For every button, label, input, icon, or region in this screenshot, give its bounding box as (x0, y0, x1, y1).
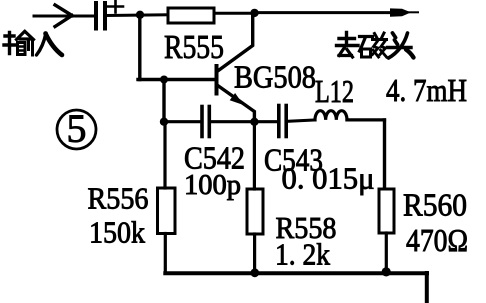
wire node E to C543 (254, 120, 278, 123)
figure number circle 5 (57, 110, 96, 149)
capacitor C542 left plate (200, 107, 204, 137)
resistor R555 (168, 8, 214, 23)
svg-text:1. 2k: 1. 2k (275, 237, 330, 272)
wire node E to R558 (253, 122, 256, 189)
wire R558 to bottom rail (253, 234, 256, 272)
svg-text:L12: L12 (315, 73, 354, 109)
svg-text:R556: R556 (88, 181, 149, 216)
label input (Chinese shu) (4, 32, 34, 56)
capacitor input coupling left plate (94, 3, 98, 29)
wire output arrow tip (405, 11, 418, 13)
arrow output (390, 8, 411, 16)
wire node D to R556 (163, 122, 166, 188)
svg-text:5: 5 (67, 106, 87, 151)
wire bottom right down (425, 273, 429, 303)
svg-text:4. 7mH: 4. 7mH (386, 72, 467, 108)
wire R556 to bottom rail (164, 234, 167, 273)
label to-head (Chinese ci) (360, 33, 387, 57)
wire R560 to bottom rail (385, 233, 388, 272)
label to-head (Chinese qu) (337, 33, 359, 58)
node B junction (250, 9, 258, 17)
wire corner down to R560 (383, 120, 386, 190)
node E junction (250, 118, 258, 126)
wire node B to output arrow (255, 11, 393, 14)
wire node D to C542 (164, 120, 201, 123)
svg-text:R555: R555 (164, 29, 224, 66)
wire node A down (138, 15, 141, 80)
wire inductor to corner (347, 118, 385, 121)
wire input left segment (34, 15, 94, 18)
transistor Q1 base bar (215, 66, 219, 94)
capacitor C543 right plate (284, 106, 288, 137)
resistor R558 (247, 189, 263, 234)
node A junction (136, 11, 144, 19)
inductor L12 (315, 111, 347, 120)
capacitor C543 left plate (277, 106, 281, 137)
node D junction (160, 118, 168, 126)
resistor R560 (379, 189, 394, 233)
wire capacitor to node A (107, 13, 168, 17)
svg-text:0. 015μ: 0. 015μ (282, 161, 375, 196)
resistor R556 (158, 188, 176, 234)
svg-text:100p: 100p (184, 170, 241, 201)
wire to base (138, 78, 215, 81)
svg-text:BG508: BG508 (234, 59, 316, 95)
polarity plus label (108, 1, 123, 13)
wire C542 to node E (211, 120, 254, 123)
wire node C down to node D (162, 80, 165, 122)
svg-text:150k: 150k (89, 215, 145, 250)
wire R555 to node B (214, 12, 256, 15)
label input (Chinese ru) (37, 33, 63, 55)
transistor Q1 collector (217, 13, 253, 72)
transistor Q1 emitter (217, 85, 254, 122)
svg-text:470Ω: 470Ω (406, 222, 468, 258)
wire C543 to inductor (288, 120, 315, 121)
node C junction (160, 76, 168, 84)
transistor Q1 emitter arrowhead (230, 93, 244, 105)
node F junction (250, 268, 259, 277)
bottom rail wire (165, 271, 427, 275)
capacitor input coupling right plate (103, 3, 107, 29)
svg-text:R560: R560 (403, 187, 467, 223)
arrow input direction (55, 5, 72, 27)
capacitor C542 right plate (208, 107, 212, 137)
node G junction (382, 267, 391, 276)
label to-head (Chinese tou) (388, 33, 414, 58)
